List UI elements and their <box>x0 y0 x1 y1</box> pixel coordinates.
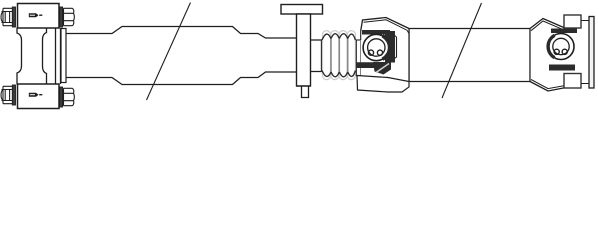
mid u-joint lower band <box>356 62 374 68</box>
top right nut <box>60 7 75 27</box>
right top bearing cap bracket <box>564 15 581 28</box>
front shaft cylinder outline <box>66 27 297 85</box>
left companion flange plate <box>56 28 61 84</box>
mid u-joint lower cup dark blob <box>373 62 391 75</box>
right u-joint lower dark band <box>549 65 575 71</box>
mid u-joint right dark strip <box>385 31 395 63</box>
bottom right nut <box>60 87 75 107</box>
mid u-joint ear body <box>361 18 409 82</box>
bottom slotted pin <box>29 93 43 97</box>
left yoke web right edge <box>43 28 47 85</box>
center bearing bracket top plate <box>281 5 323 15</box>
left top bolt head <box>1 7 16 27</box>
left yoke top lug block <box>18 4 60 29</box>
right u-joint upper dark band <box>551 29 577 34</box>
mid u-joint foot <box>357 76 409 93</box>
break line 2 <box>442 3 482 98</box>
mid u-joint collar <box>356 40 360 76</box>
right end flange <box>589 17 594 89</box>
left flange collar <box>61 29 66 83</box>
right yoke ear outline <box>530 19 566 92</box>
bearing housing right section <box>311 40 322 72</box>
left yoke bottom lug block <box>18 84 60 109</box>
rear shaft tube <box>409 29 530 82</box>
right u-joint bearing cup circle <box>548 34 574 60</box>
left yoke web left edge <box>17 28 22 85</box>
bottom tab <box>297 86 311 98</box>
bellows boot <box>322 31 355 80</box>
mid u-joint bearing cup circle <box>363 34 389 60</box>
right yoke hub connectors <box>581 21 589 84</box>
mid u-joint upper dark band <box>362 30 390 35</box>
top slotted pin <box>29 13 43 17</box>
left bottom bolt head <box>1 85 16 105</box>
break line 1 <box>147 3 191 101</box>
driveshaft technical drawing <box>0 0 598 111</box>
center bearing leg <box>297 14 311 86</box>
right bottom bearing cap bracket <box>564 74 581 89</box>
